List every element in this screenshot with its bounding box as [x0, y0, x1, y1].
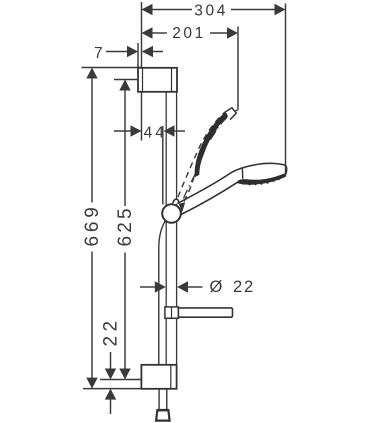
- head parting tick: [241, 168, 244, 179]
- reference line bottom 669 (y=388.6): [83, 388, 141, 390]
- extension line bracket left short (x=138): [137, 43, 139, 68]
- dimension line 669 vertical: [91, 77, 93, 203]
- svg-text:44: 44: [144, 125, 167, 142]
- svg-text:625: 625: [115, 205, 136, 246]
- svg-text:201: 201: [172, 25, 206, 42]
- bottom wall bracket: [141, 365, 176, 389]
- hose: [159, 221, 167, 410]
- phantom centerline alt position lower: [184, 172, 197, 199]
- wall bar (slide bar): [166, 92, 176, 365]
- dimension line 201: [152, 32, 167, 34]
- arrow 304 left: [142, 4, 153, 15]
- svg-text:22: 22: [101, 317, 122, 347]
- arrow 669 top: [86, 68, 97, 79]
- reference line top 669 (y=67.5): [82, 67, 142, 69]
- ball clamp nub: [173, 199, 179, 204]
- dimension line dia22 tails: [140, 286, 156, 288]
- svg-text:7: 7: [94, 45, 105, 62]
- arrow 625 bottom: [119, 369, 130, 380]
- reference line bottom 625 (y=379.5): [100, 379, 141, 381]
- svg-text:Ø22: Ø22: [210, 278, 255, 296]
- dashed alt handle inner: [184, 173, 195, 202]
- extension line below bracket (x=141.5): [141, 92, 143, 141]
- dimension line 304: [152, 9, 192, 11]
- alt head cap outline: [226, 108, 237, 120]
- svg-text:304: 304: [194, 2, 228, 19]
- arrow dia22 left: [155, 281, 166, 292]
- dashed alt handle outer: [178, 112, 226, 198]
- arrow 22 down: [105, 369, 116, 380]
- reference line top 625 (y=79.5): [114, 79, 138, 81]
- extension line head right (x=285.5): [285, 4, 287, 177]
- handle upper edge: [178, 163, 286, 203]
- arrow 7 right outside: [142, 46, 153, 57]
- head right cap: [285, 165, 287, 176]
- alt head spray face dark crescent: [195, 110, 231, 176]
- arrow 22 up: [105, 389, 116, 400]
- dimension line 7 tails: [106, 51, 127, 53]
- svg-text:669: 669: [82, 203, 103, 246]
- handle root dark wedge: [179, 202, 185, 213]
- extension line slider left (x=162.8): [162, 126, 164, 205]
- extension line wall top (x=141.5): [141, 2, 143, 68]
- alt head crescent lumps: [197, 112, 230, 163]
- arrow 201 right: [227, 27, 238, 38]
- arrow 669 bottom: [86, 378, 97, 389]
- pivot ball: [162, 204, 181, 223]
- handle lower edge: [181, 182, 237, 214]
- arrow 625 top: [119, 80, 130, 91]
- soap dish inner line: [171, 307, 173, 318]
- head nozzles: [242, 178, 280, 186]
- soap dish tray: [178, 308, 232, 317]
- dimension line 625 vertical: [124, 89, 126, 206]
- soap dish clamp: [165, 307, 179, 318]
- arrow dia22 right: [177, 281, 188, 292]
- dimension line 44 tails: [114, 130, 131, 132]
- extension line dashed-head right (x=238): [237, 27, 239, 110]
- phantom centerline alt position upper: [211, 110, 239, 140]
- head spray face dark band: [237, 174, 284, 184]
- arrow 7 left outside: [127, 46, 138, 57]
- hose end nut: [156, 410, 170, 420]
- dimension line 22 vertical: [110, 352, 112, 369]
- hose nut dark collar: [157, 409, 170, 412]
- arrow 201 left: [142, 27, 153, 38]
- arrow 44 left: [131, 125, 142, 136]
- arrow 44 right: [164, 125, 175, 136]
- top wall bracket: [138, 68, 177, 92]
- arrow 304 right: [275, 4, 286, 15]
